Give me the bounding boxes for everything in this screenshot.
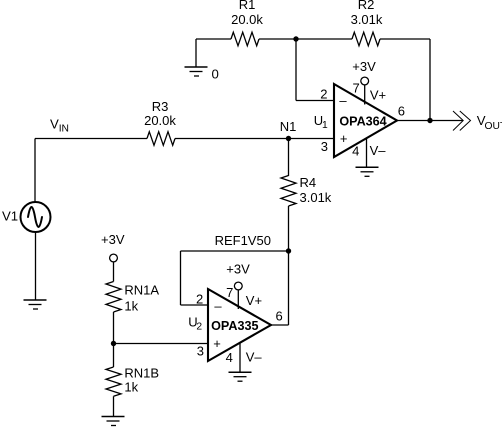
svg-text:20.0k: 20.0k xyxy=(144,113,176,128)
svg-text:V+: V+ xyxy=(370,88,386,103)
svg-text:R4: R4 xyxy=(300,175,317,190)
svg-text:1k: 1k xyxy=(124,299,138,314)
svg-text:1: 1 xyxy=(322,120,328,131)
svg-text:R1: R1 xyxy=(239,0,256,12)
svg-text:+: + xyxy=(213,336,221,351)
svg-text:3: 3 xyxy=(321,139,328,154)
svg-text:7: 7 xyxy=(226,285,233,300)
svg-text:0: 0 xyxy=(212,66,219,81)
svg-text:6: 6 xyxy=(276,309,283,324)
svg-text:+3V: +3V xyxy=(101,232,125,247)
svg-text:–: – xyxy=(214,299,222,314)
svg-text:V1: V1 xyxy=(2,209,18,224)
svg-text:IN: IN xyxy=(59,123,69,134)
svg-text:2: 2 xyxy=(320,87,327,102)
svg-text:+3V: +3V xyxy=(226,262,250,277)
svg-text:R3: R3 xyxy=(152,99,169,114)
svg-text:RN1B: RN1B xyxy=(124,366,159,381)
svg-text:REF1V50: REF1V50 xyxy=(215,233,271,248)
svg-text:RN1A: RN1A xyxy=(124,283,159,298)
svg-text:4: 4 xyxy=(226,350,233,365)
svg-text:OUT: OUT xyxy=(485,121,502,132)
svg-text:OPA335: OPA335 xyxy=(211,319,258,333)
svg-text:N1: N1 xyxy=(280,119,297,134)
svg-text:+3V: +3V xyxy=(352,59,376,74)
svg-text:4: 4 xyxy=(352,144,359,159)
svg-text:2: 2 xyxy=(196,321,202,332)
svg-text:20.0k: 20.0k xyxy=(231,12,263,27)
svg-text:3.01k: 3.01k xyxy=(300,190,332,205)
svg-text:3.01k: 3.01k xyxy=(351,12,383,27)
svg-text:6: 6 xyxy=(398,104,405,119)
svg-text:2: 2 xyxy=(196,292,203,307)
svg-text:–: – xyxy=(339,93,347,108)
svg-text:OPA364: OPA364 xyxy=(339,115,386,129)
svg-text:1k: 1k xyxy=(124,380,138,395)
svg-text:3: 3 xyxy=(197,344,204,359)
svg-text:7: 7 xyxy=(352,80,359,95)
svg-text:V+: V+ xyxy=(246,293,262,308)
svg-text:+: + xyxy=(340,131,348,146)
svg-text:V–: V– xyxy=(370,143,387,158)
svg-text:R2: R2 xyxy=(358,0,375,12)
svg-text:V–: V– xyxy=(246,350,263,365)
svg-text:V: V xyxy=(50,116,59,131)
